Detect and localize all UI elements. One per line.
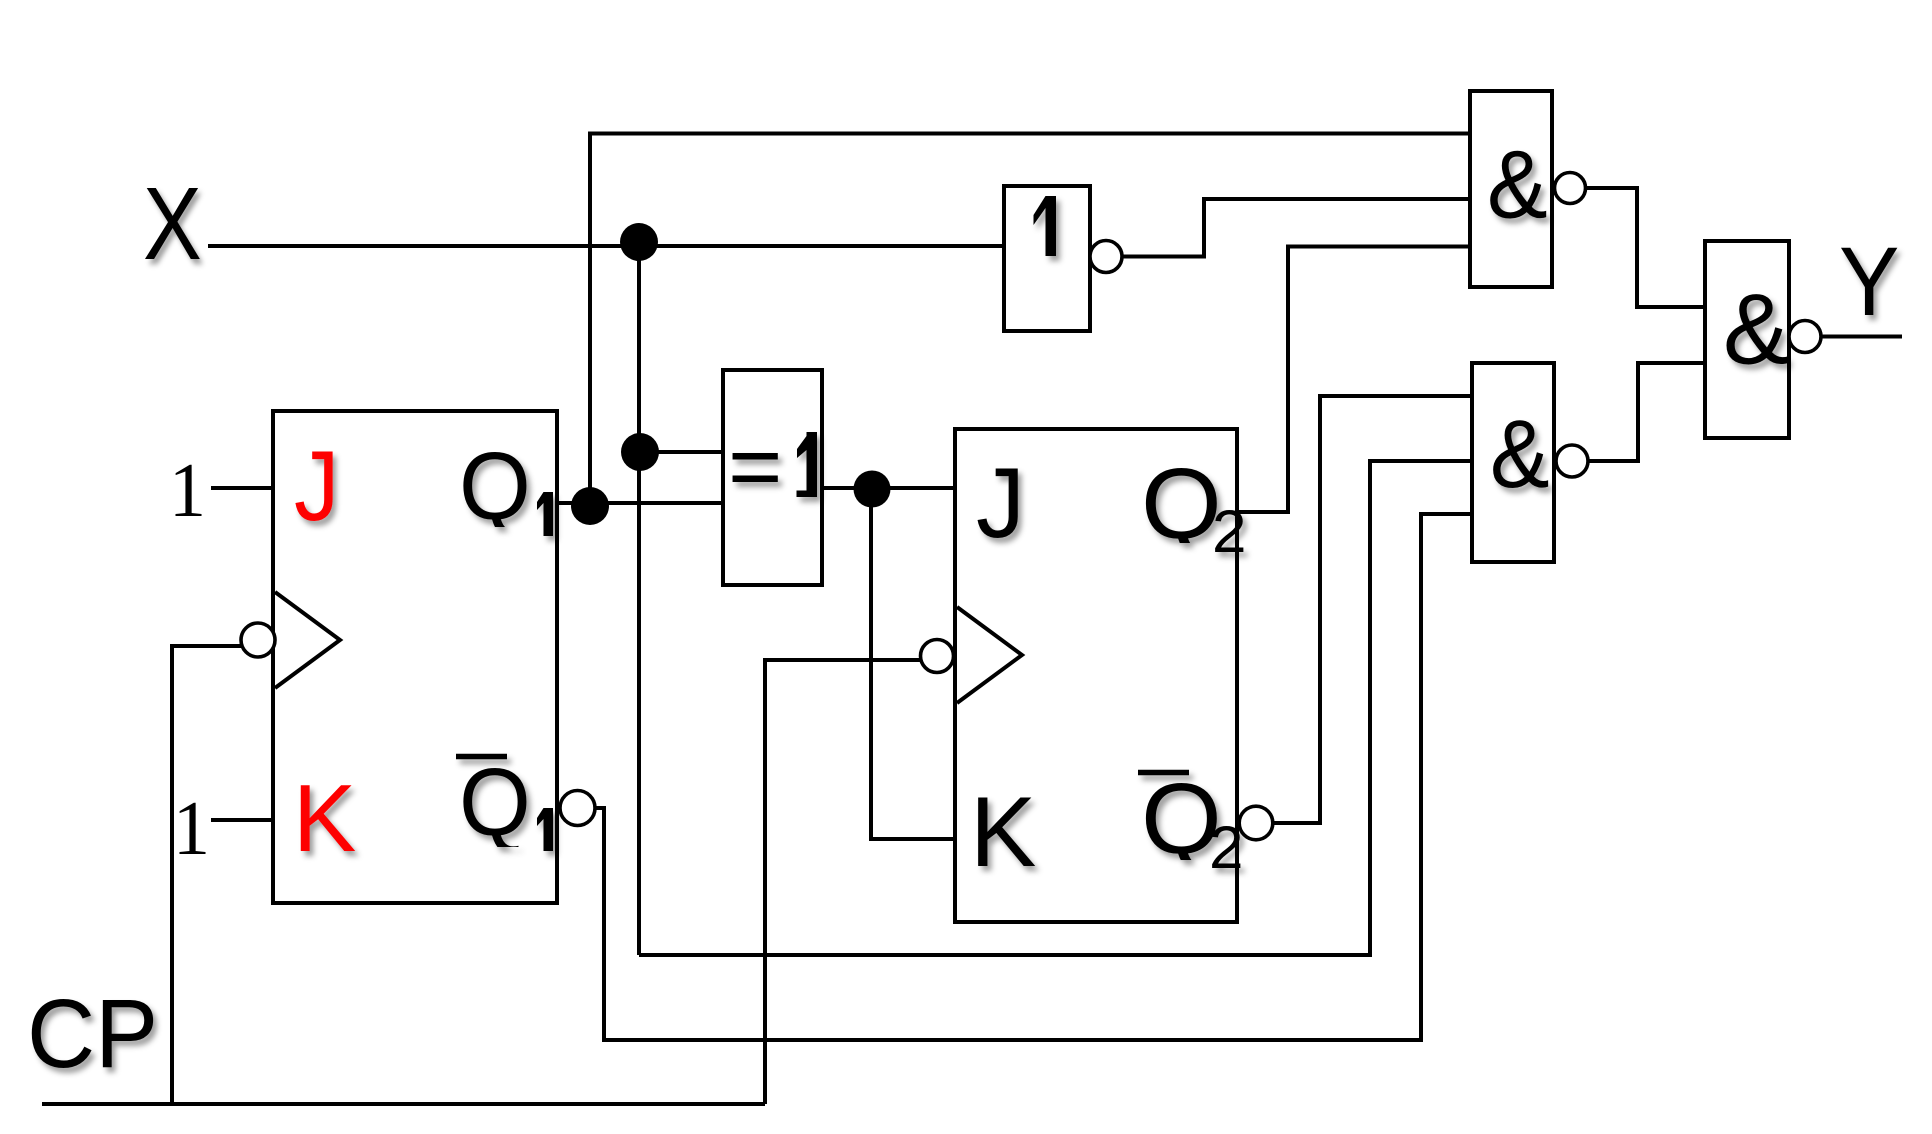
svg-text:1: 1 xyxy=(173,787,210,872)
wire J input xyxy=(211,486,273,490)
svg-text:Q: Q xyxy=(1141,448,1222,560)
FF1 Q1-bar output bubble xyxy=(560,791,595,826)
NAND gate output box xyxy=(1705,241,1789,438)
svg-text:J: J xyxy=(976,448,1025,559)
wire X to XOR input 1 xyxy=(639,450,723,454)
wire NOT output to AND1 input 2 xyxy=(1122,199,1470,257)
svg-text:&: & xyxy=(1487,130,1548,238)
NOT gate label 1 xyxy=(1034,196,1057,256)
XOR gate label one xyxy=(797,432,818,497)
FF2 clock triangle xyxy=(957,607,1022,703)
FF1 pin label Q1 xyxy=(459,432,553,539)
junction dot XOR input 1 xyxy=(621,433,659,471)
FF2 pin label Q2-bar xyxy=(1138,763,1244,881)
AND gate lower output bubble xyxy=(1556,445,1588,477)
FF1 clock triangle xyxy=(275,592,340,688)
flip-flop FF1 box xyxy=(273,411,557,903)
wire K input xyxy=(211,818,273,822)
svg-text:1: 1 xyxy=(169,449,206,534)
wire AND1 output to NAND input 1 xyxy=(1586,188,1705,307)
wire Y output xyxy=(1821,335,1902,339)
wire CP to FF1 clock xyxy=(172,646,241,1104)
wire XOR output to FF2 J xyxy=(822,486,955,490)
svg-text:&: & xyxy=(1490,400,1550,508)
junction dot X branch xyxy=(620,223,658,261)
wire Q1 vertical branch up xyxy=(588,134,592,504)
wire XOR output branch to FF2 K xyxy=(871,489,955,839)
wire Q2 to AND1 input 3 xyxy=(1237,247,1470,513)
AND gate top box xyxy=(1470,91,1552,287)
svg-text:Y: Y xyxy=(1839,227,1899,336)
svg-text:&: & xyxy=(1723,274,1789,385)
junction dot Q1 branch xyxy=(571,487,609,525)
wire Q1 to XOR input 2 xyxy=(557,501,723,505)
wire X vertical branch xyxy=(637,246,641,955)
XOR gate box xyxy=(723,370,822,585)
svg-text:=: = xyxy=(728,416,782,516)
svg-text:2: 2 xyxy=(1212,498,1247,565)
wire Q1 top feed to AND1 input 1 xyxy=(588,132,1470,136)
wire CP bus bottom xyxy=(42,1102,765,1106)
wire CP to FF2 clock xyxy=(765,660,921,1104)
svg-text:X: X xyxy=(143,167,202,282)
NAND gate output bubble xyxy=(1789,321,1821,353)
wire Q2-bar to AND2 input 1 xyxy=(1273,396,1472,823)
wire AND2 output to NAND input 2 xyxy=(1588,363,1705,461)
FF2 pin label Q2 xyxy=(1141,448,1247,565)
flip-flop FF2 box xyxy=(955,429,1237,922)
wire X bottom feed to AND2 input 2 xyxy=(639,461,1472,955)
svg-text:J: J xyxy=(294,431,339,542)
FF1 clock bubble xyxy=(241,623,275,657)
AND gate lower box xyxy=(1472,363,1554,562)
NOT gate output bubble xyxy=(1090,241,1122,273)
FF2 Q2-bar output bubble xyxy=(1239,806,1273,840)
wire X input horizontal xyxy=(208,244,1004,248)
junction dot XOR output xyxy=(854,471,891,508)
svg-text:Q: Q xyxy=(459,748,531,855)
svg-text:Q: Q xyxy=(459,432,531,539)
wire Q1-bar to AND2 input 3 xyxy=(595,514,1472,1040)
svg-text:CP: CP xyxy=(27,980,158,1088)
svg-text:K: K xyxy=(970,777,1036,888)
FF2 clock bubble xyxy=(921,640,954,673)
FF1 pin label Q1-bar xyxy=(456,748,553,855)
NOT gate box xyxy=(1004,186,1090,331)
AND gate top output bubble xyxy=(1555,173,1586,204)
svg-text:K: K xyxy=(293,765,356,872)
